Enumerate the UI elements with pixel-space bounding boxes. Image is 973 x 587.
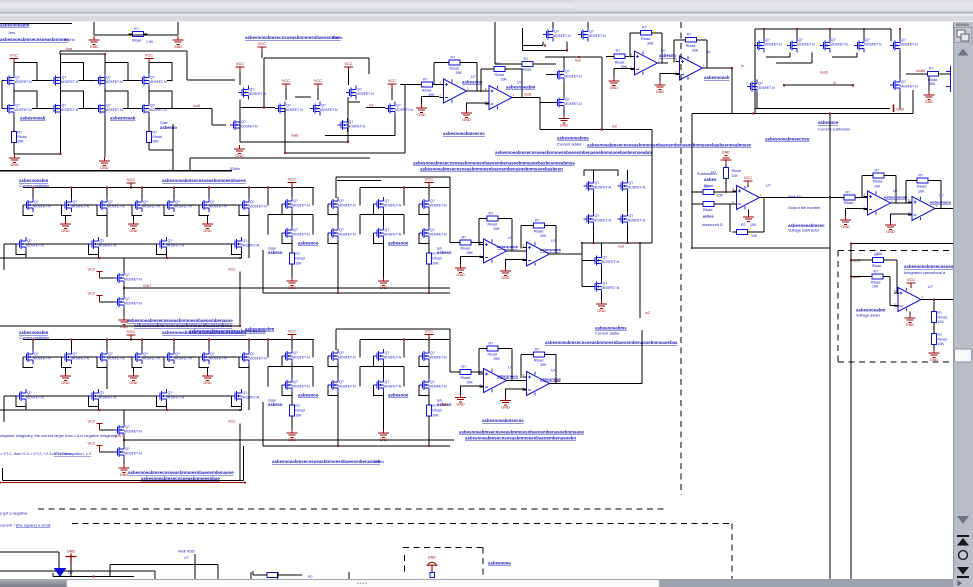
wire (154, 571, 156, 579)
svg-text:GND: GND (841, 225, 850, 229)
node junction (752, 112, 754, 114)
wire (512, 97, 540, 99)
wire (700, 39, 707, 41)
op-amp U3 (635, 51, 658, 75)
wire (478, 219, 480, 246)
wire (851, 276, 868, 278)
wire (428, 187, 430, 198)
wire (123, 258, 125, 271)
wire dashed boundary (72, 523, 732, 525)
svg-text:asbesnoeabm: asbesnoeabm (506, 85, 535, 90)
wire (148, 116, 150, 128)
svg-text:In: In (833, 81, 836, 85)
svg-text:MOSFET-N: MOSFET-N (384, 356, 402, 360)
wire (317, 88, 319, 100)
wire (106, 212, 108, 237)
wire (23, 187, 314, 189)
wire (0, 325, 241, 327)
svg-text:GND: GND (67, 550, 76, 554)
svg-text:GND: GND (456, 273, 465, 277)
wire (383, 392, 385, 429)
svg-text:GND: GND (10, 163, 19, 167)
wire (174, 204, 199, 206)
svg-text:Rload: Rload (703, 208, 712, 212)
svg-text:In: In (741, 64, 744, 68)
wire (366, 107, 385, 109)
wire U8 gnd stub (461, 386, 484, 394)
svg-text:VCC: VCC (288, 177, 296, 182)
wire (905, 181, 907, 203)
op-amp U1 pins (440, 85, 444, 98)
svg-text:R?: R? (432, 252, 437, 256)
wire (383, 363, 385, 378)
svg-text:Q?: Q? (168, 239, 173, 243)
ground B2-1 (60, 372, 71, 380)
wire gate tie (419, 233, 429, 244)
wire (731, 68, 733, 114)
wire (268, 366, 313, 368)
ground B1ext-1 (287, 277, 298, 285)
scrollbar page-down button (957, 567, 969, 575)
node junction (166, 257, 168, 259)
wire (337, 240, 339, 293)
svg-text:VCC: VCC (282, 78, 290, 83)
ground U2 (461, 109, 472, 117)
wire (52, 573, 54, 576)
wire (899, 92, 901, 109)
ground U6 (455, 264, 466, 272)
node junction (626, 242, 628, 244)
wire (890, 305, 899, 307)
node junction (284, 152, 286, 154)
svg-text:GND: GND (610, 86, 619, 90)
wire (291, 268, 293, 278)
svg-text:39K: 39K (432, 413, 439, 417)
wire (148, 146, 150, 150)
ground A4 (559, 115, 570, 123)
wire (291, 339, 293, 350)
power VCC gate B1b (97, 296, 103, 303)
power VCC B2ext-2 (425, 335, 434, 339)
svg-text:Q?: Q? (106, 76, 111, 80)
node junction (581, 242, 583, 244)
ground B2 mid (119, 464, 130, 472)
wire (467, 90, 490, 92)
wire (475, 371, 484, 373)
wire gate tie (157, 244, 167, 255)
transistor Q11 A2 (275, 102, 285, 116)
svg-text:Q?: Q? (831, 38, 836, 42)
svg-text:39K: 39K (432, 261, 439, 265)
node junction (141, 338, 143, 340)
wire (476, 63, 478, 92)
wire (239, 424, 241, 481)
svg-text:Q?: Q? (293, 199, 298, 203)
ground A2-1 (234, 145, 245, 153)
resistor R2 Rload 39K leads (13, 128, 15, 146)
svg-text:Q?: Q? (396, 104, 401, 108)
transistor Q69 B2ext row1 (374, 349, 384, 363)
wire (239, 100, 241, 142)
wire (277, 572, 279, 579)
svg-text:Output the number: Output the number (788, 205, 821, 210)
wire (106, 188, 108, 199)
svg-text:MOSFET-N: MOSFET-N (105, 108, 123, 112)
svg-text:asbesnoeab: asbesnoeab (110, 116, 136, 121)
svg-text:Q?: Q? (250, 352, 255, 356)
transistor Q6 A1 row2 (51, 102, 61, 116)
horizontal scrollbar track (66, 579, 953, 587)
wire (124, 439, 454, 441)
op-amp U8 pins (480, 374, 484, 387)
resistor R18 B2ext (427, 405, 432, 416)
wire (478, 349, 480, 376)
wire (359, 367, 361, 387)
svg-text:Rload: Rload (461, 376, 470, 380)
ground U4 (655, 81, 666, 89)
wire gate tie (328, 385, 338, 396)
svg-text:MOSFET-N: MOSFET-N (61, 108, 79, 112)
wire (207, 368, 209, 373)
resistor R1 Rload leads (129, 33, 148, 35)
svg-text:MOSFET-N: MOSFET-N (429, 204, 447, 208)
resistor R16 feedback U7 leads (530, 225, 549, 227)
transistor Q23 A5 row (854, 39, 864, 53)
wire (263, 58, 265, 108)
svg-text:R?: R? (741, 223, 746, 227)
wire (706, 40, 708, 68)
svg-text:Rload: Rload (938, 338, 947, 342)
wire (166, 251, 168, 258)
svg-text:3: 3 (863, 193, 865, 197)
resistor R22 subtractor leads (725, 164, 727, 182)
wire (851, 259, 869, 261)
resistor R14 input G1 (460, 240, 471, 245)
transistor Q42 B1 row2 (157, 237, 167, 251)
wire (268, 214, 313, 216)
svg-text:Q?: Q? (293, 351, 298, 355)
wire (190, 157, 370, 159)
power VCC adder (907, 283, 916, 287)
wire (262, 250, 264, 293)
wire (360, 339, 449, 341)
wire gate tie (419, 204, 429, 215)
wire (718, 203, 737, 205)
wire (291, 240, 293, 250)
wire (0, 170, 232, 172)
transistor Q18 A4 mirror1 (554, 68, 564, 82)
node junction (428, 292, 430, 294)
resistor R33 bottom leads (263, 574, 282, 576)
wire (718, 191, 737, 193)
svg-text:asbesnoeabmsecnsoeasbnmoesnbae: asbesnoeabmsecnsoeasbnmoesnbaeosmbenasoe… (545, 340, 678, 345)
resistor R30 adder in2 (872, 274, 883, 279)
wire (403, 367, 405, 387)
svg-text:Q?: Q? (250, 88, 255, 92)
ground B1-2 (128, 220, 139, 228)
transistor Q45 B1 mid2 (114, 295, 124, 309)
svg-text:Iout: Iout (618, 245, 624, 249)
svg-text:Q?: Q? (73, 200, 78, 204)
wire (13, 63, 15, 75)
wire (862, 175, 870, 177)
svg-text:Rload: Rload (732, 169, 741, 173)
svg-text:VCC: VCC (907, 277, 915, 282)
wire (539, 103, 541, 130)
power VCC B2ext-1 (288, 335, 297, 339)
wire (546, 74, 554, 76)
wire (899, 29, 901, 39)
wire gate tie (282, 204, 292, 215)
op-amp U6 pins (480, 245, 484, 258)
wire (284, 152, 405, 154)
wire (502, 348, 512, 350)
svg-text:MOSFET-N: MOSFET-N (797, 43, 815, 47)
svg-text:Rload: Rload (615, 61, 624, 65)
wire U7 gnd stub (506, 260, 527, 268)
svg-text:Q?: Q? (339, 228, 344, 232)
wire (26, 395, 89, 397)
wire (261, 51, 263, 58)
power VCC B1 (127, 183, 136, 187)
svg-text:Q?: Q? (595, 214, 600, 218)
ground subtractor top (721, 156, 732, 164)
wire (106, 364, 108, 389)
ground U3 (608, 77, 619, 85)
wire (2, 468, 4, 481)
transistor Q39 B1 row1 (239, 198, 249, 212)
svg-text:Q?: Q? (175, 352, 180, 356)
transistor Q57 B2 row1 (132, 350, 142, 364)
svg-text:39K: 39K (929, 82, 936, 86)
resistor R16 feedback U7 (534, 223, 545, 228)
svg-text:GND: GND (288, 438, 297, 442)
wire (128, 80, 139, 82)
svg-text:Rload: Rload (641, 37, 650, 41)
svg-text:R?: R? (489, 211, 494, 215)
svg-text:asbesn: asbesn (268, 250, 283, 255)
wire (692, 203, 699, 205)
wire (312, 215, 314, 235)
svg-text:R?: R? (489, 341, 494, 345)
wire (593, 226, 595, 243)
svg-text:Rload: Rload (461, 247, 470, 251)
resistor R10 feedback U4 leads (681, 39, 700, 41)
svg-text:VCC: VCC (258, 41, 266, 46)
transistor Q44 B1 mid1 (114, 271, 124, 285)
svg-text:VCC: VCC (314, 78, 322, 83)
wire (479, 348, 484, 350)
node junction (32, 186, 34, 188)
wire (747, 185, 749, 188)
wire (368, 58, 370, 74)
node junction (173, 186, 175, 188)
power VCC A1-right (145, 59, 154, 63)
wire (109, 564, 111, 576)
ground B2-2 (128, 372, 139, 380)
svg-text:Q?: Q? (100, 239, 105, 243)
wire (895, 176, 897, 204)
svg-text:y got a negative: y got a negative (0, 511, 27, 516)
wire (267, 215, 269, 235)
svg-text:Q?: Q? (34, 352, 39, 356)
wire (651, 130, 653, 244)
wire (656, 32, 663, 34)
transistor Q38 B1 row1 (199, 198, 209, 212)
wire (909, 312, 911, 315)
svg-text:Rload: Rload (432, 257, 441, 261)
svg-text:U?: U? (706, 51, 711, 55)
wire dashed boundary (838, 250, 956, 252)
svg-text:Current adder: Current adder (557, 142, 582, 147)
wire (134, 367, 143, 369)
transistor Q15 A2 (338, 118, 348, 132)
wire (549, 354, 557, 356)
svg-text:10K: 10K (717, 194, 724, 198)
svg-text:Q?: Q? (339, 199, 344, 203)
wire gate tie (419, 385, 429, 396)
svg-text:U?: U? (471, 75, 476, 79)
svg-text:R?: R? (295, 252, 300, 256)
wire (725, 182, 727, 192)
wire (100, 277, 115, 279)
svg-text:GND: GND (61, 381, 70, 385)
wire (731, 113, 913, 115)
power VCC B1ext-2 (425, 183, 434, 187)
node junction (337, 445, 339, 447)
svg-text:MOSFET-N: MOSFET-N (338, 385, 356, 389)
svg-text:Q?: Q? (901, 38, 906, 42)
wire (211, 109, 213, 125)
port pin square (430, 573, 435, 578)
node junction (291, 186, 293, 188)
svg-text:MOSFET-N: MOSFET-N (242, 396, 260, 400)
wire (403, 215, 405, 235)
node junction (829, 196, 831, 198)
transistor Q16 A4-top1 (543, 28, 553, 42)
wire (523, 45, 543, 47)
node junction (731, 67, 733, 69)
wire (174, 356, 199, 358)
ground adder out (929, 349, 940, 357)
svg-text:39K: 39K (295, 413, 302, 417)
wire (336, 176, 450, 178)
transistor Q9 A2 (239, 86, 249, 100)
wire (691, 114, 693, 249)
resistor R8 input U3 (614, 54, 625, 59)
wire (754, 29, 756, 114)
node junction (106, 186, 108, 188)
svg-text:R?: R? (687, 33, 692, 37)
wire (692, 247, 830, 249)
resistor R13 B1ext leads (428, 250, 430, 268)
wire (555, 355, 557, 384)
node junction (852, 84, 854, 86)
resistor R20 feedback U8 (487, 346, 498, 351)
svg-text:52kHz: 52kHz (64, 38, 75, 42)
wire (428, 268, 430, 294)
ground B1ext-2 (378, 277, 389, 285)
wire (239, 71, 241, 85)
svg-text:Q?: Q? (250, 200, 255, 204)
wire gate tie (16, 244, 26, 255)
node junction (263, 107, 265, 109)
wire (177, 22, 179, 35)
svg-text:VCC: VCC (145, 53, 153, 58)
wire dashed boundary (680, 22, 682, 495)
wire (167, 395, 232, 397)
svg-text:MOSFET-N: MOSFET-N (292, 204, 310, 208)
wire gate tie loop (105, 63, 128, 81)
node junction (566, 49, 568, 51)
wire (133, 216, 135, 221)
wire (53, 575, 134, 577)
node junction (428, 338, 430, 340)
wire (37, 108, 51, 110)
node junction (239, 257, 241, 259)
wire gate tie (62, 205, 72, 216)
svg-text:negative imaginary, the curren: negative imaginary, the current larger t… (0, 433, 117, 438)
svg-text:MOSFET-N: MOSFET-N (429, 385, 447, 389)
wire (692, 191, 699, 193)
svg-text:Q?: Q? (243, 391, 248, 395)
wire (148, 88, 150, 102)
wire (480, 69, 482, 92)
svg-text:Q?: Q? (385, 199, 390, 203)
wire (511, 219, 513, 252)
transistor Q54 B2 row1 (23, 350, 33, 364)
transistor Q51 B1ext row2 (328, 226, 338, 240)
wire gate tie (97, 205, 107, 216)
wire gate tie (419, 356, 429, 367)
wire gate tie (89, 396, 99, 407)
ground (89, 36, 100, 44)
svg-text:GND: GND (100, 166, 109, 170)
horizontal scrollbar right arrow (958, 580, 963, 586)
svg-text:Q?: Q? (339, 351, 344, 355)
wire (335, 177, 337, 198)
svg-text:IOUT: IOUT (143, 284, 152, 288)
svg-text:10K: 10K (872, 285, 879, 289)
wire (940, 181, 942, 209)
wire gate tie (23, 357, 33, 368)
svg-text:MOSFET-N: MOSFET-N (764, 43, 782, 47)
svg-text:R?: R? (875, 168, 880, 172)
wire U9 gnd stub (506, 389, 527, 397)
wire (173, 188, 175, 199)
svg-text:39K: 39K (456, 71, 463, 75)
wire (890, 29, 892, 41)
svg-text:asbesnoeabmsecns: asbesnoeabmsecns (482, 418, 524, 423)
svg-text:asbesn: asbesn (437, 250, 452, 255)
transistor Q40 B1 row2 (16, 237, 26, 251)
svg-text:MOSFET-N: MOSFET-N (429, 356, 447, 360)
svg-text:32kHz: 32kHz (230, 167, 240, 171)
wire (123, 459, 125, 464)
node junction (933, 298, 935, 300)
svg-text:VCC: VCC (87, 419, 95, 423)
svg-text:R?: R? (295, 404, 300, 408)
wire (3, 396, 5, 422)
thumb grip (357, 582, 367, 584)
op-amp U12 (912, 197, 935, 221)
svg-text:GND: GND (501, 406, 510, 410)
wire (104, 88, 106, 102)
wire gate tie loop (61, 91, 84, 109)
svg-text:R?: R? (535, 218, 540, 222)
wire (428, 240, 430, 250)
svg-text:MOSFET-N: MOSFET-N (105, 80, 123, 84)
